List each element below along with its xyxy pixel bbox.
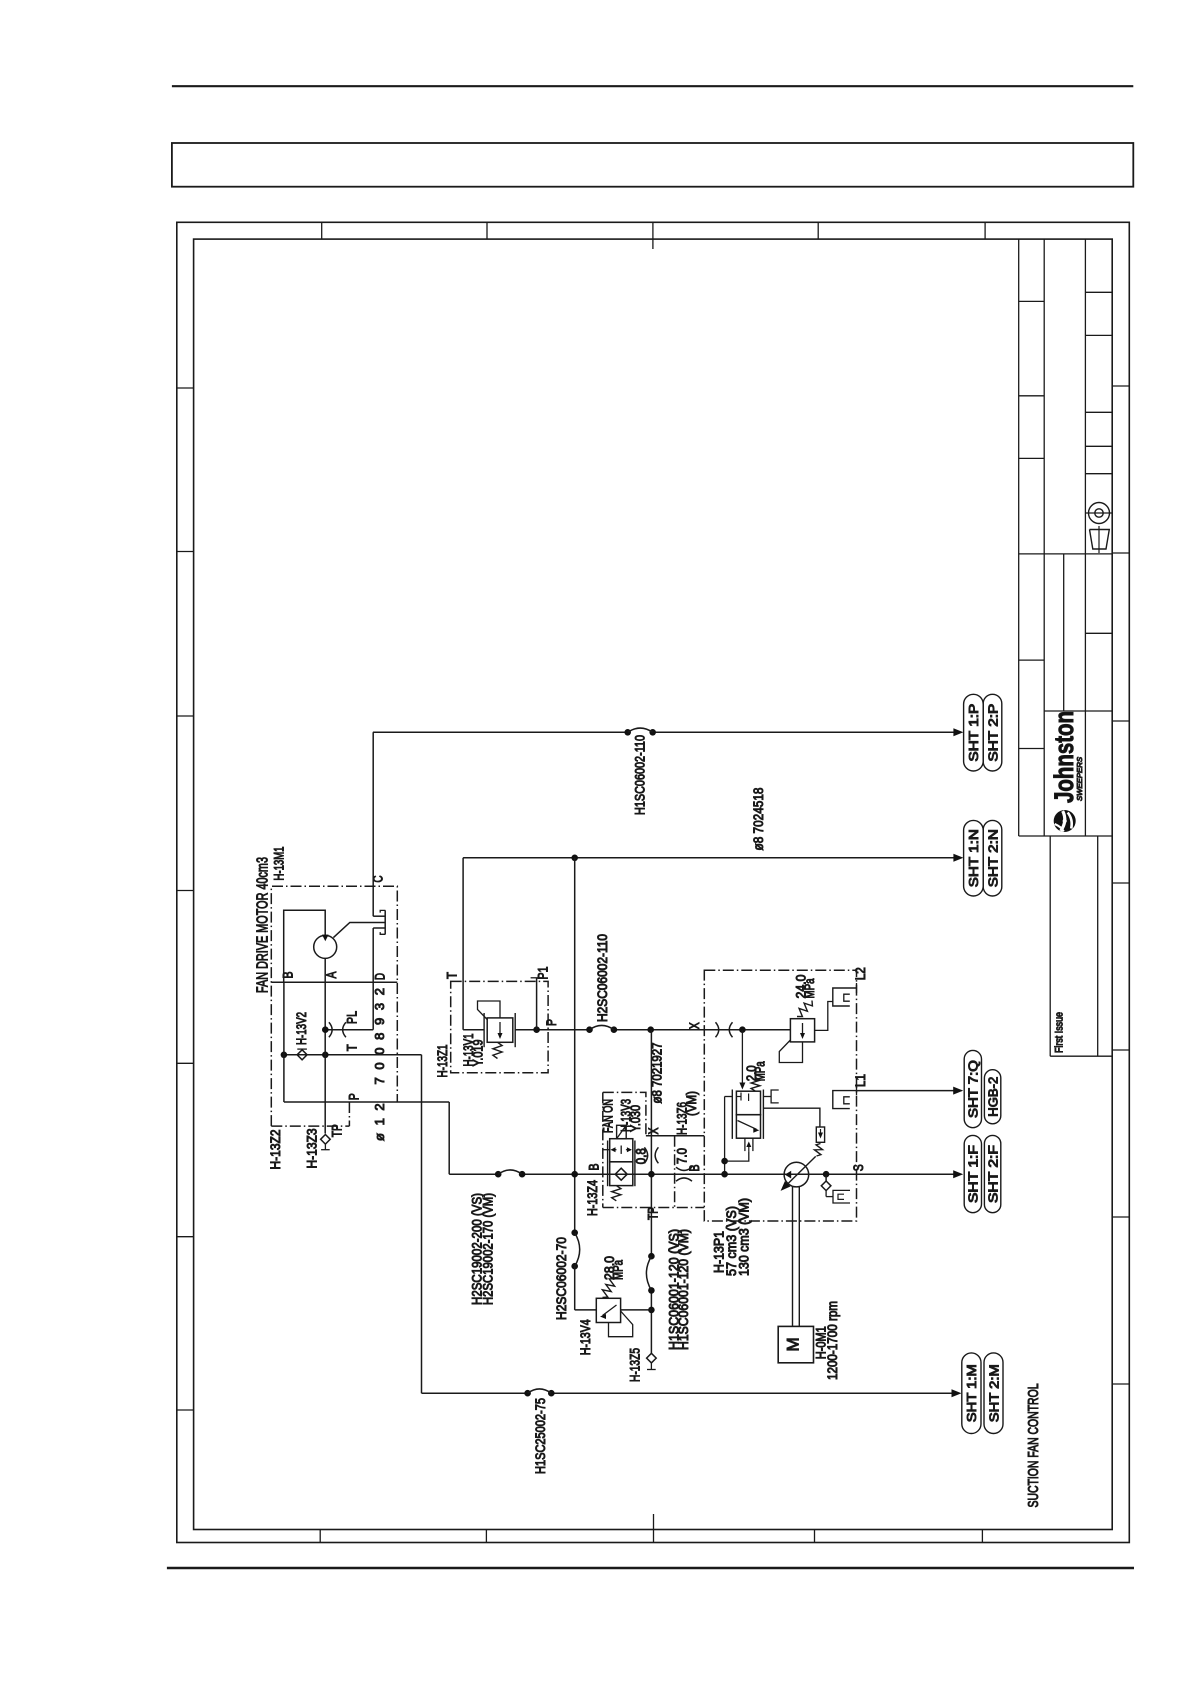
svg-text:SWEEPERS: SWEEPERS [1075, 757, 1084, 801]
svg-text:SHT 2:N: SHT 2:N [986, 829, 1000, 887]
svg-text:PL: PL [345, 1011, 360, 1024]
svg-text:Y.030: Y.030 [628, 1105, 643, 1132]
svg-text:X: X [646, 1128, 661, 1135]
svg-text:HGB-2: HGB-2 [986, 1077, 1000, 1117]
svg-text:H-13V2: H-13V2 [294, 1012, 309, 1045]
svg-text:MPa: MPa [611, 1260, 626, 1280]
svg-text:SHT 2:M: SHT 2:M [987, 1364, 1001, 1422]
svg-text:H-13Z3: H-13Z3 [305, 1129, 320, 1169]
svg-text:M: M [784, 1337, 803, 1351]
svg-text:C: C [371, 875, 386, 882]
svg-text:1200-1700 rpm: 1200-1700 rpm [825, 1301, 840, 1380]
svg-text:A: A [324, 972, 339, 979]
svg-text:SHT 1:M: SHT 1:M [965, 1364, 979, 1422]
svg-text:7.0: 7.0 [674, 1148, 689, 1164]
svg-text:First Issue: First Issue [1053, 1012, 1065, 1053]
svg-text:MPa: MPa [802, 978, 817, 998]
svg-text:B: B [687, 1165, 702, 1172]
svg-text:L2: L2 [853, 967, 868, 980]
svg-text:L1: L1 [853, 1074, 868, 1087]
svg-text:H-13Z2: H-13Z2 [268, 1130, 283, 1170]
svg-text:SHT 7:Q: SHT 7:Q [967, 1060, 981, 1118]
svg-text:TP: TP [646, 1207, 661, 1220]
svg-text:FAN DRIVE MOTOR 40cm3: FAN DRIVE MOTOR 40cm3 [255, 857, 272, 993]
svg-text:SHT 2:P: SHT 2:P [986, 704, 1000, 762]
svg-text:SHT 1:P: SHT 1:P [967, 704, 981, 762]
svg-text:X: X [687, 1022, 702, 1029]
svg-text:ø8 7024518: ø8 7024518 [751, 788, 766, 851]
svg-text:H2SC06002-70: H2SC06002-70 [554, 1237, 569, 1320]
svg-text:H-13Z5: H-13Z5 [628, 1348, 643, 1382]
svg-text:ø8 7021927: ø8 7021927 [649, 1043, 664, 1104]
svg-text:0,8: 0,8 [633, 1148, 648, 1164]
svg-text:FAN ON: FAN ON [601, 1099, 616, 1133]
svg-text:H1SC25002-75: H1SC25002-75 [533, 1398, 548, 1474]
svg-text:SUCTION FAN CONTROL: SUCTION FAN CONTROL [1026, 1384, 1042, 1508]
svg-text:H-13Z1: H-13Z1 [435, 1045, 450, 1078]
svg-text:Y.019: Y.019 [470, 1040, 485, 1067]
svg-text:H1SC06001-120 (VM): H1SC06001-120 (VM) [676, 1229, 691, 1350]
svg-text:H-13M1: H-13M1 [272, 847, 287, 881]
svg-text:D: D [373, 973, 388, 980]
svg-text:SHT 1:N: SHT 1:N [967, 829, 981, 887]
svg-text:P: P [347, 1093, 362, 1100]
svg-text:MPa: MPa [753, 1061, 768, 1081]
svg-text:130 cm3 (VM): 130 cm3 (VM) [737, 1198, 752, 1276]
svg-text:B: B [281, 972, 296, 979]
svg-text:B: B [586, 1164, 601, 1171]
svg-text:SHT 1:F: SHT 1:F [967, 1145, 981, 1203]
svg-text:TP: TP [329, 1124, 344, 1137]
svg-text:S: S [851, 1164, 866, 1171]
svg-text:H1SC06002-110: H1SC06002-110 [633, 735, 648, 815]
svg-text:P1: P1 [536, 967, 551, 980]
svg-text:H2SC19002-170 (VM): H2SC19002-170 (VM) [481, 1193, 496, 1305]
svg-text:H-13V4: H-13V4 [578, 1319, 593, 1355]
svg-text:H2SC06002-110: H2SC06002-110 [595, 934, 610, 1022]
svg-text:(VM): (VM) [684, 1091, 699, 1116]
svg-text:P: P [544, 1019, 559, 1026]
svg-text:SHT 2:F: SHT 2:F [986, 1145, 1000, 1203]
svg-text:H-13Z4: H-13Z4 [585, 1180, 600, 1216]
svg-text:T: T [345, 1044, 360, 1051]
svg-text:T: T [445, 972, 460, 979]
